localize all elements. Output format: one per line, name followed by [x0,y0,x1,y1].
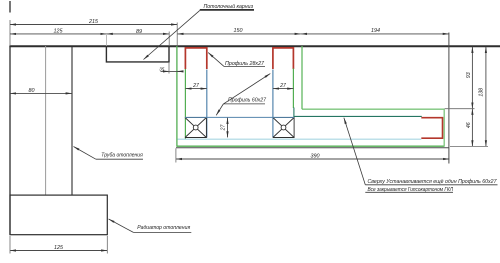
profile channel 2 blue left side [272,70,274,138]
dimension 46 [466,109,472,147]
drywall box green outline: right vertical [443,109,445,147]
note text line 1 [365,179,497,185]
extension green box left top [176,23,178,47]
horizontal profile red end channel [421,118,442,139]
profile channel 2 green right side [292,69,294,109]
heating pipe black line [71,46,73,195]
dimension 27 channel 1 [185,83,206,89]
left wall [9,46,11,235]
svg-text:125: 125 [54,245,64,251]
label ceiling cornice [144,3,255,60]
horizontal profile teal top line [294,108,421,117]
note leader backlight profile [344,118,365,185]
svg-text:Труба отопления: Труба отопления [101,153,143,159]
svg-text:27: 27 [192,83,200,89]
svg-text:27: 27 [221,124,227,132]
dimension 125 radiator [10,245,107,251]
ceiling cornice niche [106,47,169,62]
svg-text:80: 80 [29,88,35,94]
radiator box [10,195,107,235]
dimension 89 [107,29,170,35]
drywall box green outline: upper vertical [301,46,303,109]
dimension 80 [10,88,72,94]
dimension 390 [176,153,449,159]
svg-text:390: 390 [311,153,320,159]
extension radiator left [9,236,11,254]
ceiling line [9,45,500,47]
extension box bottom right [450,145,488,147]
right wall edge / extension [448,33,450,164]
svg-text:Сверху Устанавливается ещё оди: Сверху Устанавливается ещё один Профиль … [368,179,497,185]
extension cornice right below [168,62,170,74]
profile channel 2 red cap [273,48,294,69]
svg-text:194: 194 [371,28,380,34]
svg-text:35: 35 [159,66,165,71]
note text line 2 [365,187,453,193]
extension radiator right [106,236,108,254]
drywall box green outline: left vertical [176,46,178,147]
label heating pipe [74,147,144,160]
wall cut mark top-left [9,1,11,13]
profile section box 2 [273,118,294,138]
svg-text:Профиль 60х27: Профиль 60х27 [228,97,267,103]
dimension 93 [466,47,472,109]
label radiator [109,219,192,232]
profile channel 1 red cap [185,48,206,69]
svg-text:89: 89 [136,29,142,35]
svg-text:125: 125 [54,28,64,34]
dimension 138 [478,47,486,147]
label profile 60x27 [216,74,270,116]
drywall box green outline: top of lower section [302,108,444,110]
horizontal profile blue top line [185,116,294,118]
svg-text:Профиль 28х27: Профиль 28х27 [225,61,265,67]
dimension 27 vertical [221,118,228,138]
extension line left top [9,20,11,45]
svg-text:138: 138 [478,88,484,97]
dimension 27 channel 2 [273,83,294,89]
extension 390 left [175,148,177,162]
profile channel 1 green left side [184,69,186,139]
extension for 125/89 divider [106,35,108,46]
profile section box 1 [185,118,206,138]
dimension 194 [301,28,449,34]
horizontal profile cyan bottom line [178,138,422,140]
dimension 150 [177,28,300,34]
dimension 35 [159,66,183,71]
drywall box green outline: bottom [177,145,444,147]
svg-text:46: 46 [466,122,472,128]
svg-text:27: 27 [279,83,287,89]
profile channel 1 blue right side [206,70,208,138]
dimension 125 [10,28,107,34]
extension cornice right above ceiling [168,32,170,47]
label profile 28x27 [208,53,265,67]
svg-text:Потолочный карниз: Потолочный карниз [204,3,254,10]
extension lower-section top right [445,108,475,110]
gypsum board bottom black line [176,147,449,149]
svg-text:Радиатор отопления: Радиатор отопления [137,225,190,231]
dimension 215 [10,19,177,25]
svg-text:93: 93 [466,72,472,78]
heating pipe gray line [45,46,47,195]
svg-text:215: 215 [88,19,99,25]
svg-text:150: 150 [234,28,243,34]
